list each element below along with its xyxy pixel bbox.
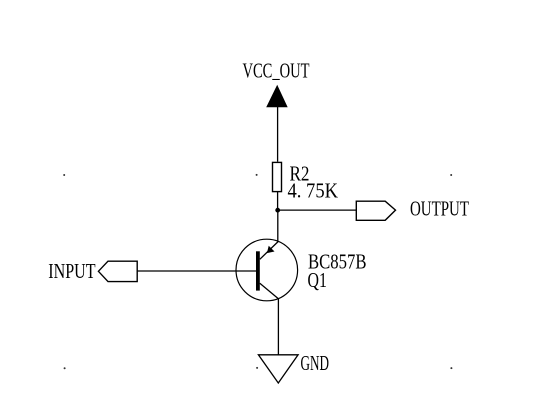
port OUTPUT — [356, 201, 395, 220]
wire node to OUTPUT port — [278, 209, 357, 211]
grid dot — [64, 367, 66, 369]
power symbol VCC_OUT — [267, 86, 287, 107]
ground — [258, 355, 298, 383]
transistor Q1 — [236, 239, 298, 301]
svg-text:Q1: Q1 — [308, 268, 327, 292]
wire R2 to node — [277, 192, 279, 210]
node junction — [275, 208, 280, 213]
grid dot — [256, 367, 258, 369]
svg-text:INPUT: INPUT — [48, 259, 95, 283]
port INPUT — [98, 261, 137, 281]
grid dot — [63, 174, 65, 176]
resistor R2 — [273, 162, 282, 191]
wire INPUT to base — [137, 270, 256, 272]
svg-text:OUTPUT: OUTPUT — [410, 197, 469, 221]
grid dot — [450, 174, 452, 176]
grid dot — [256, 174, 258, 176]
wire collector to GND — [277, 299, 279, 355]
svg-text:4. 75K: 4. 75K — [288, 179, 339, 203]
grid dot — [450, 367, 452, 369]
wire node to emitter — [277, 210, 279, 241]
svg-text:VCC_OUT: VCC_OUT — [243, 59, 310, 83]
svg-text:GND: GND — [301, 351, 330, 375]
wire VCC to R2 — [277, 107, 279, 162]
